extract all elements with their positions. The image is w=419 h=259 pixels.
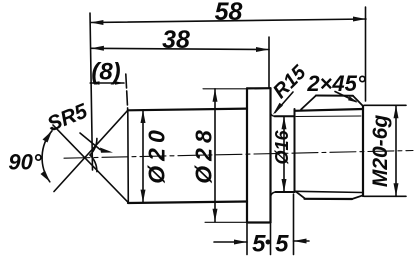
svg-text:58: 58 (215, 0, 243, 26)
svg-text:38: 38 (162, 26, 190, 54)
svg-text:90°: 90° (8, 150, 41, 175)
svg-text:Ø20: Ø20 (144, 125, 170, 183)
svg-text:M20-6g: M20-6g (369, 115, 392, 188)
svg-text:5: 5 (252, 231, 266, 258)
svg-text:2×45°: 2×45° (306, 71, 366, 96)
svg-text:Ø28: Ø28 (191, 125, 217, 183)
svg-text:SR5: SR5 (44, 99, 91, 136)
svg-text:5: 5 (275, 231, 289, 258)
svg-text:Ø16: Ø16 (272, 130, 292, 165)
svg-text:(8): (8) (91, 59, 120, 86)
svg-text:R15: R15 (269, 61, 311, 103)
